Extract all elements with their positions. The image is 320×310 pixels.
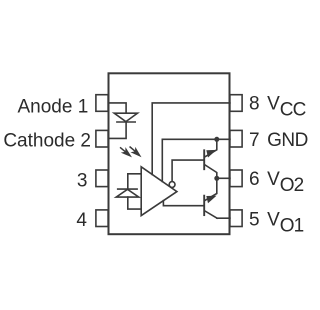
transistor Q1 base bar [203,150,205,169]
wire LED cathode to pin2 [109,122,127,138]
op-amp A1 triangle [141,167,177,216]
IC body outline U1 [109,73,230,234]
transistor Q1 emitter wire [205,139,217,156]
light arrow 1 [121,148,125,152]
pin 7 box [230,130,242,147]
wire Q2 collector to pin5 [217,217,230,219]
wire amp lower edge to Q2 base [163,201,203,206]
pin 5 box [230,210,242,227]
wire GND pin7 to amp [162,139,230,181]
wire VO2 node to pin6 [217,177,230,179]
transistor Q1 emitter arrowhead [206,150,216,158]
svg-text:Cathode 2: Cathode 2 [3,130,91,151]
svg-text:V: V [267,169,280,190]
LED D1 input diode [114,113,137,121]
svg-text:O1: O1 [280,216,304,237]
wire VCC pin8 to amp [152,103,230,174]
light arrow 2 [130,147,134,151]
wire photodiode cathode to amp [128,174,141,189]
svg-text:GND: GND [267,130,308,151]
svg-text:V: V [267,210,280,231]
wire pin1 anode to LED [109,103,127,113]
wire amp output bubble to Q1 base [172,160,203,182]
svg-text:CC: CC [280,99,306,120]
pin 2 box [96,130,108,147]
pin 8 box [230,95,242,112]
svg-text:8: 8 [249,93,260,114]
wire photodiode anode to amp [128,197,141,209]
pin 6 box [230,170,242,187]
svg-text:V: V [267,93,280,114]
photodiode D2 [116,189,139,197]
svg-text:6: 6 [249,169,260,190]
pin 1 box [96,95,108,112]
junction dot node VO2 [214,176,219,181]
transistor Q1 collector wire [205,165,217,179]
transistor Q2 collector wire [205,211,217,218]
junction dot on GND wire [214,137,219,142]
transistor Q2 emitter arrowhead [206,196,216,204]
transistor Q2 emitter wire [205,178,217,200]
svg-text:O2: O2 [280,175,304,196]
pin 4 box [96,210,108,227]
pin 3 box [96,170,108,187]
svg-text:Anode 1: Anode 1 [18,97,89,118]
inversion bubble on amp output [169,182,175,188]
svg-text:4: 4 [76,210,87,231]
svg-text:3: 3 [77,170,88,191]
svg-text:7: 7 [249,130,260,151]
transistor Q2 base bar [203,196,205,215]
svg-text:5: 5 [249,210,260,231]
